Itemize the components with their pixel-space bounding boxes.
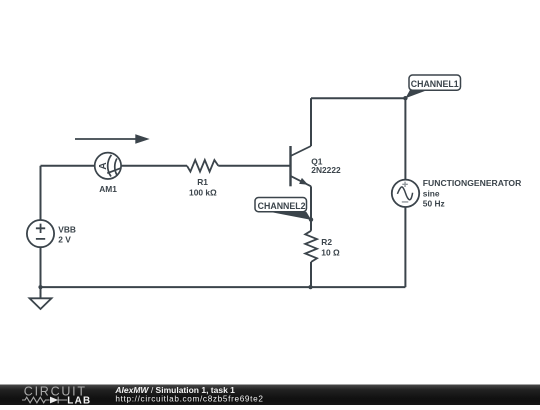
svg-text:VBB: VBB: [58, 224, 76, 234]
svg-text:2 V: 2 V: [58, 235, 71, 245]
wire: R1 to base: [218, 165, 290, 167]
CHANNEL2 pointer: [267, 211, 312, 220]
svg-text:A: A: [98, 162, 109, 170]
svg-text:CHANNEL2: CHANNEL2: [258, 201, 306, 211]
wire: R2 bottom lead: [310, 262, 312, 287]
svg-text:50 Hz: 50 Hz: [423, 199, 445, 209]
logo diode triangle: [50, 397, 58, 404]
resistor R2: [305, 231, 317, 262]
function generator: [392, 180, 419, 207]
node junction emitter: [309, 217, 313, 221]
svg-text:LAB: LAB: [67, 395, 91, 405]
transistor Q1: [291, 146, 312, 186]
wire: right vertical bottom: [404, 207, 406, 287]
current direction arrow: [75, 134, 150, 144]
svg-text:FUNCTIONGENERATOR: FUNCTIONGENERATOR: [423, 178, 522, 188]
wire: collector vertical: [310, 98, 312, 146]
svg-text:10 Ω: 10 Ω: [321, 247, 340, 257]
ground: [30, 298, 52, 309]
logo circuit glyph: [22, 397, 67, 404]
resistor R1: [187, 160, 218, 172]
svg-text:http://circuitlab.com/c8zb5fre: http://circuitlab.com/c8zb5fre69te2: [115, 395, 263, 404]
svg-text:R1: R1: [197, 177, 208, 187]
wire: ground stem: [40, 287, 42, 298]
voltage source VBB: [27, 220, 54, 247]
svg-text:sine: sine: [423, 188, 440, 198]
svg-text:AlexMW / Simulation 1, task 1: AlexMW / Simulation 1, task 1: [114, 385, 235, 395]
wire: ammeter to R1: [121, 165, 187, 167]
wire: left vertical VBB bottom: [40, 247, 42, 287]
wire: left vertical VBB top: [40, 166, 42, 220]
Q1 emitter arrow: [299, 178, 308, 185]
wire: top horizontal net: [311, 97, 405, 99]
CHANNEL1 pointer: [405, 90, 425, 98]
function generator plus: [402, 182, 409, 202]
node junction bottom left: [38, 285, 42, 289]
wire: bottom net: [41, 286, 406, 288]
wire: top-left to ammeter: [41, 165, 95, 167]
svg-text:100 kΩ: 100 kΩ: [189, 188, 217, 198]
svg-text:AM1: AM1: [99, 184, 117, 194]
node junction bottom R2: [308, 285, 312, 289]
ammeter AM1: [95, 153, 121, 179]
wire: emitter vertical: [310, 186, 312, 231]
CHANNEL1 box: [409, 75, 461, 90]
CHANNEL2 box: [255, 198, 307, 212]
svg-text:R2: R2: [321, 237, 332, 247]
footer bar: [0, 385, 540, 406]
svg-text:2N2222: 2N2222: [311, 165, 341, 175]
svg-text:CHANNEL1: CHANNEL1: [411, 79, 459, 89]
wire: right vertical top: [404, 98, 406, 179]
node junction top right: [403, 96, 407, 100]
